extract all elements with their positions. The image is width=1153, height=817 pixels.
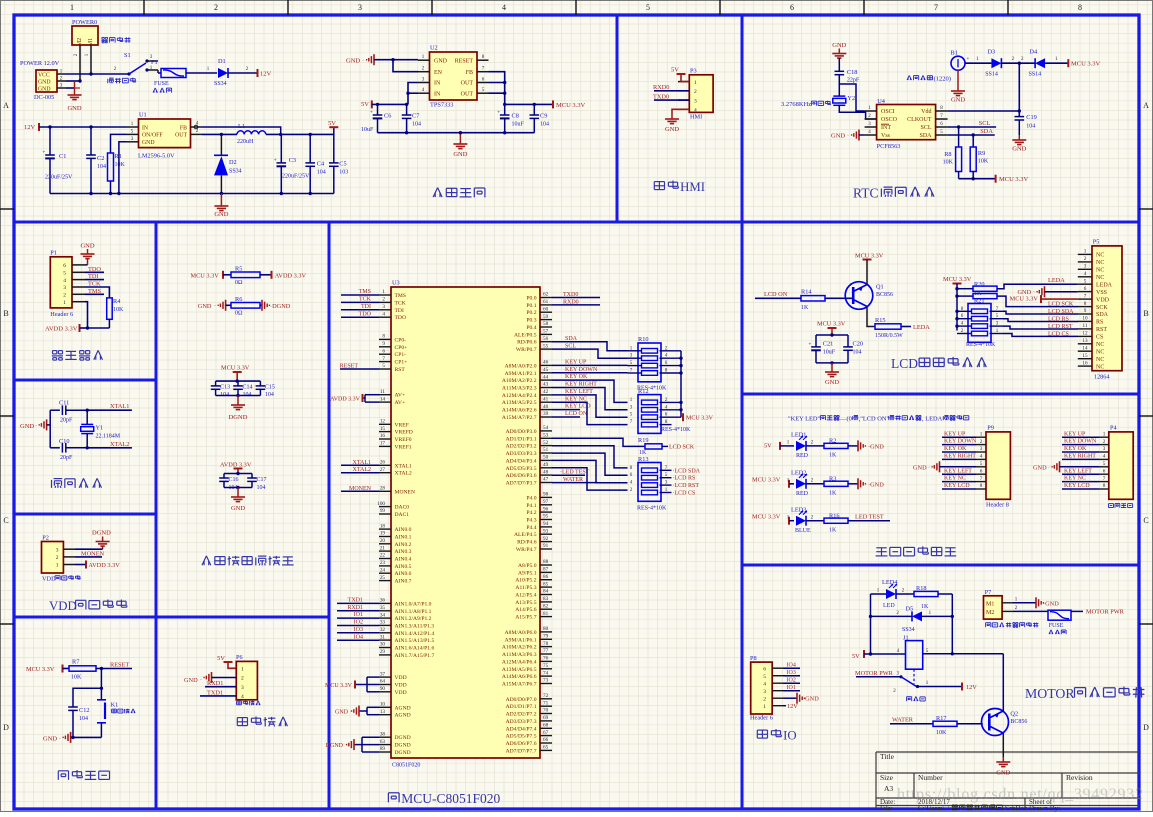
svg-text:K1: K1 xyxy=(111,702,119,709)
svg-text:KEY RIGHT: KEY RIGHT xyxy=(1064,454,1096,460)
svg-text:Number: Number xyxy=(918,773,943,782)
svg-text:MOTOR PWR: MOTOR PWR xyxy=(855,670,894,677)
svg-text:POWER 12.0V: POWER 12.0V xyxy=(20,60,60,67)
svg-text:AD6/D6/P7.6: AD6/D6/P7.6 xyxy=(506,741,537,747)
svg-text:A13/P5.5: A13/P5.5 xyxy=(515,600,536,606)
svg-text:KEY NC: KEY NC xyxy=(565,396,587,402)
svg-text:GND: GND xyxy=(43,736,57,743)
svg-text:+: + xyxy=(966,56,969,62)
svg-text:AD7/D7/P3.7: AD7/D7/P3.7 xyxy=(506,481,537,487)
svg-text:12V: 12V xyxy=(24,124,36,131)
svg-text:73: 73 xyxy=(543,678,549,684)
svg-text:95: 95 xyxy=(543,514,549,520)
svg-text:7: 7 xyxy=(1103,476,1106,482)
svg-text:0Ω: 0Ω xyxy=(235,311,243,317)
svg-text:45: 45 xyxy=(543,367,549,373)
svg-text:·LED TEST: ·LED TEST xyxy=(560,470,590,476)
svg-text:2: 2 xyxy=(56,555,59,561)
svg-text:(1220): (1220) xyxy=(934,76,951,83)
svg-text:48: 48 xyxy=(543,469,549,475)
svg-text:TPS7333: TPS7333 xyxy=(430,102,453,109)
svg-text:D: D xyxy=(3,723,9,732)
svg-text:RED: RED xyxy=(796,491,809,497)
svg-text:16: 16 xyxy=(380,433,386,439)
svg-text:AIN1.5/A13/P1.5: AIN1.5/A13/P1.5 xyxy=(395,638,435,644)
svg-text:P4.4: P4.4 xyxy=(526,525,536,531)
resistor R4 10K xyxy=(107,298,113,319)
svg-text:AD5/D5/P7.5: AD5/D5/P7.5 xyxy=(506,734,537,740)
svg-text:, LEDA: , LEDA xyxy=(922,415,943,422)
ground GND (C21) xyxy=(831,363,833,367)
svg-text:10K: 10K xyxy=(943,160,954,166)
net TXD1 xyxy=(200,695,236,697)
connector P2 xyxy=(42,542,64,574)
svg-text:34: 34 xyxy=(380,612,386,618)
svg-text:"KEY LED": "KEY LED" xyxy=(788,415,821,422)
U3 AIN0 pins xyxy=(379,528,391,530)
svg-text:3: 3 xyxy=(763,689,766,695)
svg-text:IO3: IO3 xyxy=(787,670,796,676)
power port AVDD 3.3V (P2) xyxy=(75,564,86,566)
svg-text:A13M/A5/P2.5: A13M/A5/P2.5 xyxy=(502,400,537,406)
capacitor C2 104 xyxy=(90,127,92,155)
svg-text:IO3: IO3 xyxy=(354,627,363,633)
svg-text:IO: IO xyxy=(783,729,797,743)
svg-text:RXD0: RXD0 xyxy=(563,299,579,305)
svg-text:51: 51 xyxy=(543,447,549,453)
net IO2 xyxy=(337,625,379,627)
svg-text:83: 83 xyxy=(543,596,549,602)
svg-text:D3: D3 xyxy=(988,49,996,56)
svg-text:74: 74 xyxy=(543,670,549,676)
svg-text:78: 78 xyxy=(543,641,549,647)
power port MCU 3.3V xyxy=(552,100,554,108)
net IO3 xyxy=(337,632,379,634)
capacitor C9 104 xyxy=(533,104,535,115)
svg-text:7: 7 xyxy=(1084,293,1087,299)
svg-text:50: 50 xyxy=(543,455,549,461)
net TXD0 xyxy=(654,99,689,101)
svg-text:14: 14 xyxy=(1082,345,1088,351)
comment 钮子开关 xyxy=(107,79,109,83)
svg-text:MCU 3.3V: MCU 3.3V xyxy=(855,253,884,260)
bottom rail U2 xyxy=(378,132,535,134)
svg-text:47: 47 xyxy=(543,477,549,483)
svg-text:+: + xyxy=(274,158,277,163)
ground GND (P8) xyxy=(783,697,797,699)
svg-text:5V: 5V xyxy=(852,653,860,660)
svg-text:A13M/A5/P6.5: A13M/A5/P6.5 xyxy=(502,667,537,673)
net TDO TDI TCK TMS xyxy=(85,271,104,273)
svg-text:R17: R17 xyxy=(936,715,947,722)
capacitor C14 104 xyxy=(237,381,239,386)
net TCK xyxy=(341,301,379,303)
svg-text:8: 8 xyxy=(1103,483,1106,489)
comment 纽扣电池（1220） xyxy=(907,75,909,80)
U3 right P2 pins xyxy=(540,364,552,366)
svg-text:11: 11 xyxy=(380,389,385,395)
svg-text:C18: C18 xyxy=(847,69,858,76)
svg-text:220uH: 220uH xyxy=(237,139,254,145)
svg-text:XTAL2: XTAL2 xyxy=(352,467,371,473)
svg-text:1: 1 xyxy=(56,563,59,569)
svg-text:P0.2: P0.2 xyxy=(526,310,536,316)
svg-text:VDD: VDD xyxy=(42,576,56,583)
wire F1 to D1 xyxy=(186,72,217,74)
svg-text:14: 14 xyxy=(380,396,386,402)
svg-text:42: 42 xyxy=(543,389,549,395)
svg-text:C:\Users\..\: C:\Users\..\ xyxy=(918,804,950,812)
svg-text:SDA: SDA xyxy=(980,128,993,135)
svg-text:·: · xyxy=(214,304,216,310)
svg-text:GND: GND xyxy=(38,86,51,92)
svg-text:+: + xyxy=(497,111,500,116)
svg-text:MCU 3.3V: MCU 3.3V xyxy=(686,416,714,422)
svg-text:KEY RIGHT: KEY RIGHT xyxy=(944,454,976,460)
svg-text:IN: IN xyxy=(142,125,149,131)
svg-text:VDD: VDD xyxy=(395,675,407,681)
svg-text:60: 60 xyxy=(543,306,549,312)
svg-text:AD2/D2/P3.2: AD2/D2/P3.2 xyxy=(506,444,537,450)
regulator U1 LM2596-5.0V xyxy=(139,119,191,148)
svg-text:Y1: Y1 xyxy=(96,425,104,432)
svg-text:1K: 1K xyxy=(974,291,982,297)
svg-text:U2: U2 xyxy=(430,45,438,52)
svg-text:OSCI: OSCI xyxy=(881,109,895,115)
switch K1 两脚贴片 xyxy=(100,688,102,700)
wire 12V rail xyxy=(39,126,127,128)
capacitor C3 220uF/25V xyxy=(280,134,282,163)
svg-text:1: 1 xyxy=(382,289,385,295)
svg-text:R12: R12 xyxy=(638,388,649,395)
svg-text:AIN0.4: AIN0.4 xyxy=(395,557,412,563)
svg-text:5: 5 xyxy=(1103,461,1106,467)
svg-text:VREF: VREF xyxy=(395,422,409,428)
svg-text:MCU 3.3V: MCU 3.3V xyxy=(1071,61,1101,68)
svg-text:KEY LCD: KEY LCD xyxy=(1064,483,1090,489)
svg-text:94: 94 xyxy=(543,521,549,527)
resistor network R22 RES-4*10K xyxy=(968,304,991,343)
resistor R18 1K xyxy=(914,591,938,596)
svg-text:2: 2 xyxy=(980,439,983,445)
resistor R9 10K xyxy=(972,135,974,147)
svg-text:+: + xyxy=(43,151,46,156)
svg-text:10uF: 10uF xyxy=(361,127,374,133)
svg-text:GND: GND xyxy=(142,140,155,146)
svg-text:103: 103 xyxy=(339,170,348,176)
net SCL xyxy=(948,126,997,128)
capacitor C11 20pF xyxy=(50,409,60,411)
svg-text:90: 90 xyxy=(380,686,386,692)
svg-text:104: 104 xyxy=(79,716,88,722)
svg-text:MCU 3.3V: MCU 3.3V xyxy=(999,176,1029,183)
net WATER xyxy=(552,482,598,484)
svg-text:A9/P5.1: A9/P5.1 xyxy=(518,570,537,576)
svg-text:MONEN: MONEN xyxy=(81,550,105,557)
resistor R15 150R/0.5W xyxy=(875,324,901,329)
svg-text:49: 49 xyxy=(543,462,549,468)
svg-text:MCU 3.3V: MCU 3.3V xyxy=(556,102,586,109)
svg-text:10K: 10K xyxy=(936,730,947,736)
svg-text:F1: F1 xyxy=(151,59,158,66)
svg-text:RES-4*10K: RES-4*10K xyxy=(661,427,691,433)
title 预留串口 xyxy=(237,717,247,719)
svg-text:RES-4*10K: RES-4*10K xyxy=(966,342,996,348)
svg-text:AIN1.2/A9/P1.2: AIN1.2/A9/P1.2 xyxy=(395,616,432,622)
wire GND to U2 xyxy=(374,59,418,61)
svg-text:93: 93 xyxy=(543,529,549,535)
svg-text:AD0/D0/P3.0: AD0/D0/P3.0 xyxy=(506,429,537,435)
resistor R16 1K xyxy=(824,518,848,523)
svg-text:NC: NC xyxy=(1096,260,1104,266)
svg-text:KEY LCD: KEY LCD xyxy=(944,483,970,489)
svg-text:LM2596-5.0V: LM2596-5.0V xyxy=(138,153,175,160)
wire Vdd net xyxy=(948,110,1020,112)
svg-text:30: 30 xyxy=(380,642,386,648)
svg-text:A8M/A0/P2.0: A8M/A0/P2.0 xyxy=(505,363,537,369)
resistor R14 1K xyxy=(801,296,825,301)
connector P7 (motor terminal) xyxy=(984,596,1003,619)
svg-text:BC856: BC856 xyxy=(876,292,893,298)
capacitor C15 104 xyxy=(259,381,261,386)
svg-text:KEY DOWN: KEY DOWN xyxy=(565,367,598,373)
power port MCU 3.3V (RTC) xyxy=(1067,59,1069,67)
svg-text:A15M/A7/P2.7: A15M/A7/P2.7 xyxy=(502,415,537,421)
U3 DGND pins / DGND xyxy=(379,736,391,738)
svg-text:D1: D1 xyxy=(218,58,226,65)
connector P5 12864 xyxy=(1092,246,1122,371)
svg-text:DGND: DGND xyxy=(395,743,411,749)
svg-text:GND: GND xyxy=(80,243,94,250)
svg-text:P6: P6 xyxy=(236,654,243,661)
svg-text:TDI: TDI xyxy=(361,304,371,310)
svg-text:3: 3 xyxy=(358,3,362,12)
U3 right P7 pins xyxy=(540,698,552,700)
svg-text:SDA: SDA xyxy=(1096,312,1109,318)
svg-text:AIN0.3: AIN0.3 xyxy=(395,549,412,555)
svg-text:VDD: VDD xyxy=(49,599,77,613)
net IO3 xyxy=(783,675,800,677)
svg-text:Q2: Q2 xyxy=(1010,711,1018,718)
svg-text:HMI: HMI xyxy=(690,114,702,121)
svg-text:C4: C4 xyxy=(317,161,325,168)
svg-text:GND: GND xyxy=(20,423,34,430)
wire D1 to 12V xyxy=(228,72,257,74)
svg-text:GND: GND xyxy=(38,79,51,85)
net SDA xyxy=(552,342,628,351)
svg-text:MONEN: MONEN xyxy=(349,486,372,492)
svg-text:R15: R15 xyxy=(875,317,886,324)
svg-text:80: 80 xyxy=(543,626,549,632)
svg-text:R18: R18 xyxy=(916,585,927,592)
svg-text:87: 87 xyxy=(543,567,549,573)
svg-text:C14: C14 xyxy=(243,385,253,391)
svg-text:ON/OFF: ON/OFF xyxy=(142,133,163,139)
svg-text:TXD1: TXD1 xyxy=(348,598,363,604)
net RESET xyxy=(96,668,132,670)
svg-text:10K: 10K xyxy=(978,159,989,165)
crystal Y2 xyxy=(833,98,846,103)
net LED TEST xyxy=(552,474,585,476)
svg-text:B1: B1 xyxy=(951,50,958,57)
svg-text:67: 67 xyxy=(543,730,549,736)
svg-text:L1: L1 xyxy=(238,123,245,130)
svg-text:·LCD RST: ·LCD RST xyxy=(673,483,700,489)
svg-text:27: 27 xyxy=(380,467,386,473)
svg-text:CP1+: CP1+ xyxy=(395,360,408,366)
net TDO xyxy=(341,316,379,318)
wire R8 R9 to MCU3.3V xyxy=(959,178,996,180)
svg-text:C11: C11 xyxy=(59,400,69,407)
svg-text:NC: NC xyxy=(1096,268,1104,274)
wire MCU3.3V bus xyxy=(680,351,682,417)
svg-text:MOTOR PWR: MOTOR PWR xyxy=(1086,609,1125,616)
svg-text:22pF: 22pF xyxy=(847,78,860,84)
net KEY RIGHT (P4) xyxy=(1062,458,1099,460)
svg-text:RESET: RESET xyxy=(110,662,129,669)
resistor R17 10K xyxy=(933,721,957,726)
svg-text:GND: GND xyxy=(453,151,467,158)
net RXD1 xyxy=(337,610,379,612)
capacitor C20 104 xyxy=(847,335,849,347)
net KEY DOWN (P9) xyxy=(942,444,976,446)
section dividers xyxy=(14,221,1139,224)
svg-text:SCL: SCL xyxy=(920,125,931,131)
svg-text:MCU-C8051F020: MCU-C8051F020 xyxy=(401,791,500,806)
svg-text:4: 4 xyxy=(382,311,385,317)
svg-text:RST: RST xyxy=(395,367,406,373)
svg-text:S1: S1 xyxy=(124,52,131,59)
svg-text:LCD RST: LCD RST xyxy=(1048,324,1073,330)
svg-text:,"LCD ON": ,"LCD ON" xyxy=(859,415,890,422)
resistor network R10 RES-4*10K xyxy=(638,343,661,382)
svg-text:C15: C15 xyxy=(265,385,275,391)
svg-text:22.1184M: 22.1184M xyxy=(96,434,121,440)
svg-text:6: 6 xyxy=(63,263,66,269)
svg-text:33: 33 xyxy=(380,620,386,626)
svg-text:A12M/A4/P2.4: A12M/A4/P2.4 xyxy=(502,393,537,399)
U3 right P3 pins xyxy=(540,430,552,432)
wire OUT pins xyxy=(489,72,505,105)
svg-text:AD3/D3/P3.3: AD3/D3/P3.3 xyxy=(506,451,537,457)
svg-text:·GND: ·GND xyxy=(803,696,819,703)
svg-text:4: 4 xyxy=(241,694,244,700)
svg-text:GND: GND xyxy=(996,770,1010,777)
svg-text:GND: GND xyxy=(665,126,679,133)
svg-text:D2: D2 xyxy=(229,159,237,166)
svg-text:A14/P5.6: A14/P5.6 xyxy=(515,607,536,613)
U3 left pins CP/RST xyxy=(379,338,391,340)
svg-text:1: 1 xyxy=(1084,249,1087,255)
title 复位按键 xyxy=(57,771,59,780)
svg-text:HMI: HMI xyxy=(680,180,705,194)
svg-text:LCD SCK: LCD SCK xyxy=(669,445,695,451)
svg-text:SS34: SS34 xyxy=(214,81,227,87)
svg-text:12864: 12864 xyxy=(1094,374,1111,381)
svg-text:U4: U4 xyxy=(877,98,886,105)
svg-text:MCU 3.3V: MCU 3.3V xyxy=(191,273,220,280)
wire pin3 to DGND xyxy=(75,548,103,550)
svg-text:LCD ON: LCD ON xyxy=(565,411,588,417)
svg-text:LED3: LED3 xyxy=(791,506,806,513)
svg-text:MCU 3.3V: MCU 3.3V xyxy=(752,513,781,520)
svg-text:XTAL1: XTAL1 xyxy=(352,460,371,466)
svg-text:VSS: VSS xyxy=(1096,290,1107,296)
svg-text:A14M/A6/P6.6: A14M/A6/P6.6 xyxy=(502,674,537,680)
svg-text:AD4/D4/P7.4: AD4/D4/P7.4 xyxy=(506,726,537,732)
ground GND (power input) xyxy=(74,81,76,90)
capacitor C8 10uF xyxy=(504,104,506,115)
svg-text:GND: GND xyxy=(231,505,245,512)
svg-text:LEDA: LEDA xyxy=(1096,282,1113,288)
svg-text:22: 22 xyxy=(380,553,386,559)
svg-text:—(0: —(0 xyxy=(839,415,852,422)
wire GND net xyxy=(66,80,80,82)
svg-text:TDO: TDO xyxy=(359,311,372,317)
svg-text:5V: 5V xyxy=(217,655,225,662)
wire pin6 to GND xyxy=(85,264,88,266)
svg-text:TDO: TDO xyxy=(88,266,101,273)
svg-text:MCU 3.3V: MCU 3.3V xyxy=(943,276,972,283)
svg-text:32: 32 xyxy=(380,627,386,633)
svg-text:AIN0.2: AIN0.2 xyxy=(395,542,412,548)
svg-text:RD/P0.6: RD/P0.6 xyxy=(517,340,537,346)
svg-text:43: 43 xyxy=(543,382,549,388)
svg-text:4: 4 xyxy=(502,3,506,12)
connector POWER0 (M2 M1) xyxy=(72,26,98,45)
svg-text:RES-4*10K: RES-4*10K xyxy=(637,506,667,512)
svg-text:4: 4 xyxy=(63,278,66,284)
svg-text:97: 97 xyxy=(543,499,549,505)
svg-text:13: 13 xyxy=(1082,338,1088,344)
svg-text:1: 1 xyxy=(63,300,66,306)
title 电源滤波与隔离 xyxy=(202,556,206,565)
svg-text:4: 4 xyxy=(980,454,983,460)
svg-text:·LCD CS: ·LCD CS xyxy=(673,491,696,497)
svg-text:100: 100 xyxy=(377,501,385,507)
svg-text:R7: R7 xyxy=(72,659,79,666)
svg-text:1K: 1K xyxy=(921,604,929,610)
wires network to P5 xyxy=(1003,311,1078,314)
net TXD0 xyxy=(552,297,600,299)
svg-text:VREF1: VREF1 xyxy=(395,444,412,450)
svg-text:D4: D4 xyxy=(1029,49,1038,56)
svg-text:WATER: WATER xyxy=(563,477,583,483)
net RXD1 xyxy=(205,686,236,688)
svg-text:C21: C21 xyxy=(823,341,834,348)
svg-text:VREFD: VREFD xyxy=(395,430,413,436)
svg-text:BC856: BC856 xyxy=(1010,719,1027,725)
svg-text:+: + xyxy=(809,342,812,347)
svg-text:41: 41 xyxy=(543,396,549,402)
svg-text:NC: NC xyxy=(1096,275,1104,281)
net KEY UP (P4) xyxy=(1062,436,1099,438)
svg-text:M2: M2 xyxy=(77,38,83,46)
svg-text:TDI: TDI xyxy=(88,273,99,280)
wire B1 to D3 xyxy=(965,62,991,64)
net RXD0 xyxy=(552,304,600,306)
svg-text:DGND: DGND xyxy=(395,750,411,756)
svg-text:ALE/P0.5: ALE/P0.5 xyxy=(514,332,537,338)
svg-text:AVDD 3.3V: AVDD 3.3V xyxy=(220,462,252,469)
svg-text:40: 40 xyxy=(543,404,549,410)
svg-text:NC: NC xyxy=(1096,357,1104,363)
svg-text:3: 3 xyxy=(56,547,59,553)
svg-text:GND: GND xyxy=(335,710,349,716)
svg-text:C2: C2 xyxy=(97,155,104,162)
capacitor C18 22pF xyxy=(835,70,845,72)
svg-text:SS14: SS14 xyxy=(1029,72,1042,78)
